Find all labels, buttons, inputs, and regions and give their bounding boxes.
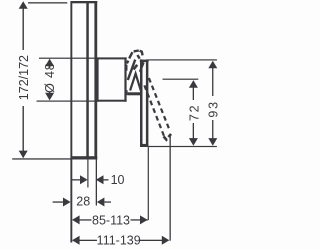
svg-text:111-139: 111-139 [97,234,141,248]
extension line: 93 top [148,59,217,60]
wire: wall reference line [70,1,72,243]
svg-text:85-113: 85-113 [92,213,130,227]
dimension 111-139 [72,234,169,248]
extension line: 72 top [163,79,199,80]
extension line: diam48 bottom [37,101,98,102]
extension line: 10/28 right vertical [96,160,97,206]
dimension 93 [207,61,221,146]
lever neck diagonal inside bar top [140,62,144,72]
wire: plate right edge [94,1,97,160]
extension line: 172 bottom [12,158,70,159]
wire: plate top edge [71,1,98,3]
handle base cylinder [97,57,127,101]
lever dashed down-tilted position [144,78,171,140]
dimension 85-113 [72,213,148,227]
connector between dashed stub and bar top [137,55,139,59]
lever dashed up position stub [127,51,143,64]
extension line: 111-139 vertical [170,136,171,241]
svg-text:10: 10 [111,173,125,187]
svg-text:28: 28 [76,194,90,208]
dimension diam 48 [43,59,57,101]
svg-text:172/172: 172/172 [17,55,31,100]
dimension 28 [53,194,111,208]
svg-text:93: 93 [207,100,221,118]
extension line: 85-113 vertical [148,147,149,220]
dimension 10 [72,173,125,187]
dimension 172/172 [17,1,31,158]
extension line: 10 left vertical [87,160,88,188]
lever handle (solid, down position) [140,59,149,147]
wire: plate bottom edge [71,156,98,159]
extension line: diam48 top [39,58,97,59]
wire: plate left edge [86,1,89,160]
extension line: lever bottom [148,146,217,147]
svg-text:72: 72 [188,104,202,122]
svg-text:Ø 48: Ø 48 [43,63,57,93]
lever pivot mechanism [128,60,141,91]
extension line: 172 top [28,2,67,3]
dimension 72 [188,80,202,146]
